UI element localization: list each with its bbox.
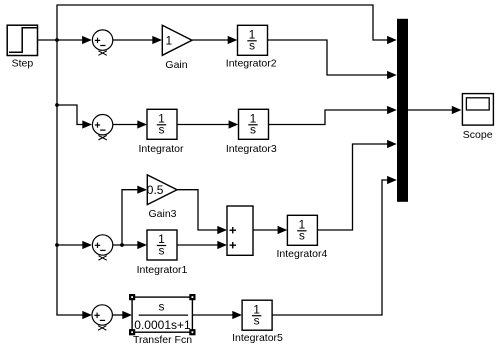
selection handle top-left of Transfer Fcn xyxy=(129,294,135,300)
step source block Step xyxy=(7,25,37,55)
wire Transfer Fcn to Integrator5 xyxy=(192,314,235,316)
svg-text:Transfer Fcn: Transfer Fcn xyxy=(133,334,192,346)
integrator block Integrator4 (1/s) xyxy=(287,215,317,245)
wire branch up to Gain3 xyxy=(122,190,140,245)
svg-text:s: s xyxy=(299,229,305,243)
svg-text:Integrator1: Integrator1 xyxy=(137,264,188,276)
junction dot node at (57,245) xyxy=(55,243,59,247)
arrowhead into Transfer Fcn xyxy=(122,311,132,319)
wire mux to Scope xyxy=(408,109,454,111)
svg-text:s: s xyxy=(249,39,255,53)
arrowhead into sum4 xyxy=(82,311,92,319)
junction dot node at (57,40) xyxy=(55,38,59,42)
wire bottom branch to sum4 xyxy=(57,314,85,317)
svg-text:s: s xyxy=(159,243,165,257)
arrowhead into mux input 1 xyxy=(387,36,397,44)
wire branch to sum2 xyxy=(57,105,85,125)
selection handle top-right of Transfer Fcn xyxy=(189,294,195,300)
sum junction (round) sum3 xyxy=(92,235,112,260)
svg-text:s: s xyxy=(159,123,165,137)
sum junction (round) sum2 xyxy=(92,115,112,140)
junction dot node at (122,245) xyxy=(120,243,124,247)
gain block Gain (triangle, value 1) xyxy=(162,25,192,55)
wire Integrator2 to mux input 2 xyxy=(268,40,390,75)
wire Step output to sum1 xyxy=(38,39,85,41)
wire Integrator to Integrator3 xyxy=(177,124,231,126)
wire Gain to Integrator2 xyxy=(192,39,230,41)
svg-text:Integrator2: Integrator2 xyxy=(226,57,277,69)
transfer function block Transfer Fcn s/(0.0001s+1) xyxy=(132,297,192,332)
arrowhead into mux input 4 xyxy=(387,140,397,148)
wire Integrator5 to mux input 5 xyxy=(272,180,389,315)
svg-text:Integrator: Integrator xyxy=(139,143,184,155)
arrowhead into Integrator3 xyxy=(229,120,239,128)
arrowhead into Gain xyxy=(152,36,162,44)
sum junction (round) sum4 xyxy=(92,305,112,330)
arrowhead into Scope xyxy=(452,106,462,114)
wire Integrator3 to mux input 3 xyxy=(269,110,390,125)
integrator block Integrator1 (1/s) xyxy=(147,230,177,260)
wire Integrator4 to mux input 4 xyxy=(317,144,389,230)
integrator block Integrator5 (1/s) xyxy=(242,300,272,330)
wire Integrator1 to sum block input 2 xyxy=(177,244,220,246)
arrowhead into mux input 5 xyxy=(387,176,397,184)
svg-text:s: s xyxy=(250,123,256,137)
wire main vertical bus x=57 xyxy=(56,5,58,316)
integrator block Integrator2 (1/s) xyxy=(238,25,268,55)
svg-text:Step: Step xyxy=(12,58,34,70)
svg-text:Scope: Scope xyxy=(463,129,493,141)
svg-text:Integrator5: Integrator5 xyxy=(232,332,283,344)
selection handle bottom-right of Transfer Fcn xyxy=(189,329,195,335)
scope block Scope xyxy=(462,94,493,126)
svg-text:1: 1 xyxy=(166,34,173,48)
junction dot node at (57,105) xyxy=(55,103,59,107)
svg-text:Gain3: Gain3 xyxy=(148,208,176,220)
gain block Gain3 (triangle, value 0.5) xyxy=(147,175,177,205)
arrowhead into Integrator xyxy=(137,120,147,128)
wire sum1 to Gain xyxy=(113,39,155,41)
wire sum2 to Integrator xyxy=(113,124,140,126)
wire sum block to Integrator4 xyxy=(253,229,280,231)
wire branch to sum3 xyxy=(57,244,85,246)
wire top branch to mux input 1 xyxy=(57,5,389,40)
integrator block Integrator3 (1/s) xyxy=(239,109,269,139)
wire Gain3 to sum block input 1 xyxy=(177,190,220,230)
svg-text:0.5: 0.5 xyxy=(147,183,164,197)
arrowhead into mux input 2 xyxy=(387,71,397,79)
arrowhead into sum block input 1 xyxy=(217,226,227,234)
wire sum3 to Integrator1 with branch junction xyxy=(113,244,140,246)
arrowhead into sum3 xyxy=(82,241,92,249)
sum block (rectangular, + +) xyxy=(227,206,253,255)
svg-text:0.0001s+1: 0.0001s+1 xyxy=(134,318,191,332)
wire sum4 to Transfer Fcn xyxy=(112,314,124,316)
arrowhead into sum block input 2 xyxy=(217,241,227,249)
arrowhead into Gain3 xyxy=(137,186,147,194)
sum junction (round) sum1 xyxy=(92,30,112,55)
selection handle bottom-left of Transfer Fcn xyxy=(129,329,135,335)
svg-text:Gain: Gain xyxy=(165,59,187,71)
svg-text:Integrator4: Integrator4 xyxy=(277,248,328,260)
arrowhead into sum2 xyxy=(82,120,92,128)
arrowhead into Integrator2 xyxy=(228,36,238,44)
svg-text:s: s xyxy=(254,314,260,328)
arrowhead into Integrator4 xyxy=(278,226,288,234)
svg-text:Integrator3: Integrator3 xyxy=(226,143,277,155)
svg-text:s: s xyxy=(159,299,165,313)
integrator block Integrator (1/s) xyxy=(147,109,177,139)
mux block (black bar) xyxy=(397,19,408,202)
arrowhead into sum1 xyxy=(82,36,92,44)
arrowhead into mux input 3 xyxy=(387,106,397,114)
arrowhead into Integrator5 xyxy=(232,311,242,319)
arrowhead into Integrator1 xyxy=(137,241,147,249)
